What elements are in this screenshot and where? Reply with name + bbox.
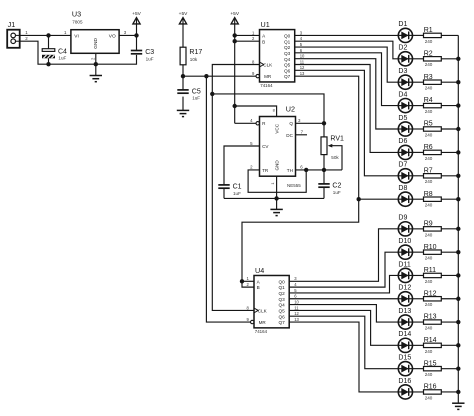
wire U1 Q2 to D3 [295, 47, 399, 82]
svg-text:R1: R1 [424, 27, 433, 34]
svg-text:D10: D10 [398, 238, 411, 245]
svg-text:D15: D15 [398, 354, 411, 361]
capacitor C2 [318, 183, 341, 195]
wire U4 Q1 to D10 [289, 252, 398, 287]
svg-text:R16: R16 [424, 384, 437, 391]
wire D5 to R5 [413, 128, 424, 130]
node junction bus / R4 [456, 103, 460, 107]
wire VO node down to C3 [136, 35, 138, 50]
svg-text:R13: R13 [424, 314, 437, 321]
node junction J1/C4/U3 [46, 33, 50, 37]
capacitor C2 1uF [323, 170, 325, 184]
svg-text:1uF: 1uF [146, 57, 154, 62]
wire U3 GND pin down [95, 53, 97, 75]
wire MR net horizontal to U1 MR [183, 75, 256, 77]
svg-text:D11: D11 [398, 261, 410, 268]
wire U2 CV to C1 [224, 146, 260, 185]
svg-text:50k: 50k [331, 155, 339, 160]
wire R13 to bus [441, 321, 458, 323]
wire U1 Q5 to D6 [295, 65, 399, 153]
wire J1 pin1 to U3 VI [20, 34, 71, 36]
wire U1 Q3 to D4 [295, 53, 399, 106]
svg-text:74164: 74164 [255, 329, 268, 334]
resistor R17 10k [180, 47, 202, 65]
wire R1 to bus [441, 34, 458, 36]
wire J1 pin2 down to ground rail [20, 41, 96, 64]
wire U2 TR to TH loop [248, 170, 306, 192]
LED D2 [398, 45, 412, 66]
svg-text:D6: D6 [398, 138, 407, 145]
svg-text:R14: R14 [424, 337, 437, 344]
svg-text:R5: R5 [424, 121, 433, 128]
resistor R14 240 [424, 337, 442, 354]
svg-text:D1: D1 [398, 21, 407, 28]
resistor R13 240 [424, 314, 442, 331]
wire +5V flag to VO node [136, 24, 138, 35]
svg-text:240: 240 [425, 109, 433, 114]
svg-text:Q5: Q5 [279, 309, 286, 314]
svg-text:13: 13 [294, 317, 299, 322]
power flag +5V above R17 [179, 11, 188, 24]
node junction R17/C5/MR [181, 74, 185, 78]
svg-text:Q6: Q6 [284, 68, 291, 73]
svg-text:13: 13 [300, 71, 305, 76]
svg-text:240: 240 [425, 232, 433, 237]
svg-text:U4: U4 [255, 266, 264, 275]
svg-text:MR: MR [264, 74, 272, 79]
LED D13 [398, 308, 412, 329]
wire +5V to R17 [182, 24, 184, 47]
node junction bus / R10 [456, 250, 460, 254]
svg-text:R4: R4 [424, 97, 433, 104]
wire R12 to bus [441, 298, 458, 300]
power flag +5V above U1 [230, 11, 239, 24]
node junction VO/C3/+5V [134, 33, 138, 37]
wire U1 Q7 to D8 [295, 76, 399, 199]
LED D16 [398, 378, 412, 399]
resistor R11 240 [424, 267, 442, 284]
svg-text:Q2: Q2 [284, 45, 291, 50]
LED D12 [398, 285, 412, 306]
power flag +5V at U3 output [132, 11, 141, 24]
node junction bus / R5 [456, 127, 460, 131]
wire D4 to R4 [413, 105, 424, 107]
svg-text:NE555: NE555 [287, 183, 301, 188]
svg-text:VI: VI [74, 33, 79, 39]
wire R11 to bus [441, 274, 458, 276]
svg-text:U2: U2 [286, 104, 295, 113]
wire U1 Q0 to D1 [295, 34, 399, 36]
LED D11 [398, 261, 412, 282]
svg-text:+5V: +5V [179, 11, 188, 17]
svg-text:D16: D16 [398, 378, 411, 385]
svg-text:240: 240 [425, 372, 433, 377]
capacitor C5 [177, 88, 201, 100]
svg-text:D14: D14 [398, 331, 411, 338]
svg-text:D13: D13 [398, 308, 411, 315]
wire D14 to R14 [413, 344, 424, 346]
potentiometer RV1 50k [321, 123, 344, 170]
voltage regulator U3 7805 [71, 9, 119, 53]
svg-text:TR: TR [262, 168, 269, 173]
svg-text:R9: R9 [424, 220, 433, 227]
svg-text:74164: 74164 [260, 83, 273, 88]
connector J1 [7, 20, 20, 48]
node junction bus / R12 [456, 297, 460, 301]
svg-text:240: 240 [425, 279, 433, 284]
timer U2 NE555 box [256, 104, 301, 188]
wire D7 to R7 [413, 175, 424, 177]
svg-text:D2: D2 [398, 45, 407, 52]
svg-text:R2: R2 [424, 50, 433, 57]
node junction bus / R8 [456, 197, 460, 201]
resistor R16 240 [424, 384, 442, 401]
svg-text:R7: R7 [424, 167, 433, 174]
node junction C4 bottom / rail [46, 62, 50, 66]
LED D4 [398, 91, 412, 112]
wire R10 to bus [441, 251, 458, 253]
wire U2 DC stub (nc) [296, 134, 308, 136]
wire D8 to R8 [413, 198, 424, 200]
node junction U1 Q7 / D8 / cascade feed [357, 197, 361, 201]
shift register U1 74164 box [252, 20, 305, 88]
wire U4 Q4 to D13 [289, 305, 398, 322]
svg-text:1uF: 1uF [333, 190, 341, 195]
svg-text:B: B [262, 39, 265, 44]
wire U3 VO to +5V node [119, 34, 136, 36]
svg-text:CLK: CLK [263, 63, 273, 68]
svg-text:R11: R11 [424, 267, 436, 274]
wire cascade U1 Q7 to U4 A,B [242, 199, 359, 287]
wire U1 Q6 to D7 [295, 70, 399, 175]
wire R8 to bus [441, 198, 458, 200]
node junction C1-C2 rail / GND [274, 196, 278, 200]
svg-text:D8: D8 [398, 185, 407, 192]
LED D6 [398, 138, 412, 159]
svg-text:+5V: +5V [230, 11, 239, 17]
svg-text:D12: D12 [398, 285, 411, 292]
svg-text:12: 12 [294, 311, 299, 316]
svg-text:12: 12 [300, 65, 305, 70]
svg-text:VCC: VCC [275, 123, 280, 133]
wire U1 Q1 to D2 [295, 41, 399, 59]
wire R4 to bus [441, 105, 458, 107]
ground GND under U3 [90, 76, 102, 82]
wire U2 GND pin to ground [276, 176, 278, 209]
node junction bus / R14 [456, 343, 460, 347]
node junction +5V/A [233, 33, 237, 37]
svg-text:R12: R12 [424, 290, 437, 297]
svg-text:Q1: Q1 [284, 39, 291, 44]
wire D13 to R13 [413, 321, 424, 323]
capacitor C4 1uF electrolytic [42, 35, 67, 64]
svg-text:D9: D9 [398, 215, 407, 222]
ground GND under U2 [270, 209, 282, 215]
capacitor C3 [131, 49, 154, 61]
resistor R12 240 [424, 290, 442, 307]
ground GND bottom right [452, 403, 464, 409]
wire R9 to bus [441, 228, 458, 230]
wire C5 top [182, 76, 184, 90]
wire to U1 pin A [235, 34, 260, 36]
svg-text:Q2: Q2 [279, 291, 286, 296]
svg-text:240: 240 [425, 62, 433, 67]
svg-text:7805: 7805 [72, 20, 83, 25]
resistor R3 240 [424, 74, 442, 91]
wire +5V to U2 reset pin [235, 122, 257, 124]
wire D15 to R15 [413, 368, 424, 370]
resistor R8 240 [424, 191, 442, 208]
node junction bus / R2 [456, 57, 460, 61]
wire U1 Q4 to D5 [295, 59, 399, 129]
node junction bus / R16 [456, 390, 460, 394]
wire D9 to R9 [413, 228, 424, 230]
node junction bus / R7 [456, 174, 460, 178]
wire +5V vertical feed to U1 A,B and U2 [234, 24, 236, 123]
svg-text:240: 240 [425, 325, 433, 330]
svg-text:11: 11 [300, 59, 305, 64]
svg-text:TH: TH [287, 168, 293, 173]
LED D15 [398, 354, 412, 375]
svg-text:R3: R3 [424, 74, 433, 81]
wire MR net vertical down to U4 MR [206, 76, 250, 322]
wire R2 to bus [441, 58, 458, 60]
LED D5 [398, 115, 412, 136]
resistor R2 240 [424, 50, 442, 67]
wire U4 Q6 to D15 [289, 316, 398, 368]
node junction CLK net / 555 Q branch [210, 92, 214, 96]
svg-text:Q7: Q7 [279, 320, 286, 325]
wire D10 to R10 [413, 251, 424, 253]
svg-text:Q0: Q0 [279, 279, 286, 284]
svg-text:240: 240 [425, 86, 433, 91]
wire R16 to bus [441, 391, 458, 393]
svg-text:J1: J1 [8, 20, 16, 29]
svg-text:Q4: Q4 [279, 303, 286, 308]
svg-text:R6: R6 [424, 144, 433, 151]
node junction bus / R3 [456, 80, 460, 84]
svg-text:240: 240 [425, 349, 433, 354]
node junction bus / R6 [456, 150, 460, 154]
node junction +5V/B [233, 39, 237, 43]
resistor R10 240 [424, 244, 442, 261]
wire R14 to bus [441, 344, 458, 346]
svg-text:240: 240 [425, 203, 433, 208]
wire ground rail C1-C2 [224, 197, 324, 199]
svg-text:R10: R10 [424, 244, 437, 251]
wire U4 Q5 to D14 [289, 310, 398, 345]
LED D7 [398, 162, 412, 183]
resistor R6 240 [424, 144, 442, 161]
LED D8 [398, 185, 412, 206]
resistor R4 240 [424, 97, 442, 114]
wire to U1 pin B [235, 40, 260, 42]
wire D12 to R12 [413, 298, 424, 300]
wire R6 to bus [441, 151, 458, 153]
svg-text:240: 240 [425, 179, 433, 184]
capacitor C1 [218, 184, 241, 196]
svg-text:1uF: 1uF [192, 96, 200, 101]
wire +5V to U2 VCC [235, 106, 277, 117]
wire R7 to bus [441, 175, 458, 177]
svg-text:1uF: 1uF [58, 56, 66, 61]
shift register U4 74164 box [246, 266, 299, 334]
LED D14 [398, 331, 412, 352]
svg-text:D5: D5 [398, 115, 407, 122]
wire C5 to ground [182, 97, 184, 111]
svg-text:11: 11 [294, 305, 299, 310]
svg-text:C3: C3 [145, 49, 154, 56]
wire U2 TH to RV1/C2 [296, 169, 343, 171]
svg-text:D7: D7 [398, 162, 407, 169]
svg-text:Q6: Q6 [279, 314, 286, 319]
svg-text:DC: DC [286, 133, 293, 138]
svg-text:CV: CV [262, 144, 269, 149]
svg-text:GND: GND [93, 38, 99, 49]
wire C1 to ground rail [223, 188, 225, 198]
wire D3 to R3 [413, 81, 424, 83]
svg-text:U3: U3 [72, 9, 81, 18]
wire clock branch to 555 output [212, 94, 324, 123]
svg-text:240: 240 [425, 156, 433, 161]
node junction U4 A/B feed [240, 279, 244, 283]
svg-text:C5: C5 [192, 88, 201, 95]
LED D9 [398, 215, 412, 236]
svg-text:Q0: Q0 [284, 34, 291, 39]
svg-text:U1: U1 [261, 20, 270, 29]
node junction TR/TH [304, 168, 308, 172]
svg-text:GND: GND [275, 160, 280, 171]
svg-text:R15: R15 [424, 360, 437, 367]
svg-text:D3: D3 [398, 68, 407, 75]
wire U4 Q3 to D12 [289, 298, 398, 300]
resistor R7 240 [424, 167, 442, 184]
resistor R1 240 [424, 27, 442, 44]
svg-text:C2: C2 [332, 183, 341, 190]
node junction bus / R13 [456, 320, 460, 324]
resistor R5 240 [424, 121, 442, 138]
svg-text:MR: MR [259, 320, 267, 325]
svg-text:240: 240 [425, 395, 433, 400]
node junction bus / R15 [456, 366, 460, 370]
wire R17 to MR node [182, 65, 184, 76]
svg-text:Q5: Q5 [284, 63, 291, 68]
wire C2 to ground rail [323, 187, 325, 198]
ground GND under C5 [177, 110, 189, 116]
svg-text:R17: R17 [189, 49, 202, 56]
svg-text:10k: 10k [190, 57, 198, 62]
node junction TH/RV1/C2 [322, 168, 326, 172]
wire R3 to bus [441, 81, 458, 83]
wire ground rail to C3 return [96, 55, 137, 64]
svg-text:B: B [257, 285, 260, 290]
node junction MR net branch to U4 [204, 74, 208, 78]
svg-text:VO: VO [109, 33, 116, 39]
svg-text:Q3: Q3 [279, 297, 286, 302]
svg-text:240: 240 [425, 39, 433, 44]
svg-text:240: 240 [425, 132, 433, 137]
wire D2 to R2 [413, 58, 424, 60]
wire U4 Q7 to D16 [289, 322, 398, 392]
LED D10 [398, 238, 412, 259]
svg-text:240: 240 [425, 256, 433, 261]
svg-text:240: 240 [425, 302, 433, 307]
node junction +5V split VCC/R [233, 104, 237, 108]
wire U1 CLK net from 555 clock [212, 65, 259, 311]
svg-text:Q4: Q4 [284, 57, 291, 62]
wire R15 to bus [441, 368, 458, 370]
svg-text:RV1: RV1 [330, 136, 344, 143]
wire U4 Q2 to D11 [289, 275, 398, 292]
svg-text:C1: C1 [233, 184, 242, 191]
wire LED return bus [457, 35, 459, 403]
LED D3 [398, 68, 412, 89]
wire D11 to R11 [413, 274, 424, 276]
svg-text:+5V: +5V [132, 11, 141, 17]
svg-text:10: 10 [294, 299, 299, 304]
node junction bus / R11 [456, 273, 460, 277]
svg-text:C4: C4 [58, 49, 67, 56]
resistor R9 240 [424, 220, 442, 237]
svg-text:Q7: Q7 [284, 74, 291, 79]
svg-text:1uF: 1uF [233, 191, 241, 196]
wire D6 to R6 [413, 151, 424, 153]
svg-text:Q3: Q3 [284, 51, 291, 56]
node junction bus / R9 [456, 227, 460, 231]
node junction rail / U3 GND [94, 62, 98, 66]
svg-text:Q: Q [289, 121, 293, 126]
resistor R15 240 [424, 360, 442, 377]
svg-text:R8: R8 [424, 191, 433, 198]
svg-text:Q1: Q1 [279, 285, 286, 290]
wire D1 to R1 [413, 34, 424, 36]
wire U4 Q0 to D9 [289, 229, 398, 281]
svg-text:D4: D4 [398, 91, 407, 98]
wire D16 to R16 [413, 391, 424, 393]
wire U4 pin A [242, 280, 254, 282]
svg-text:CLK: CLK [258, 309, 268, 314]
wire R5 to bus [441, 128, 458, 130]
node junction Q/RV1/clock [322, 121, 326, 125]
LED D1 [398, 21, 412, 42]
svg-text:10: 10 [300, 54, 305, 59]
wire U2 Q output [296, 122, 325, 124]
